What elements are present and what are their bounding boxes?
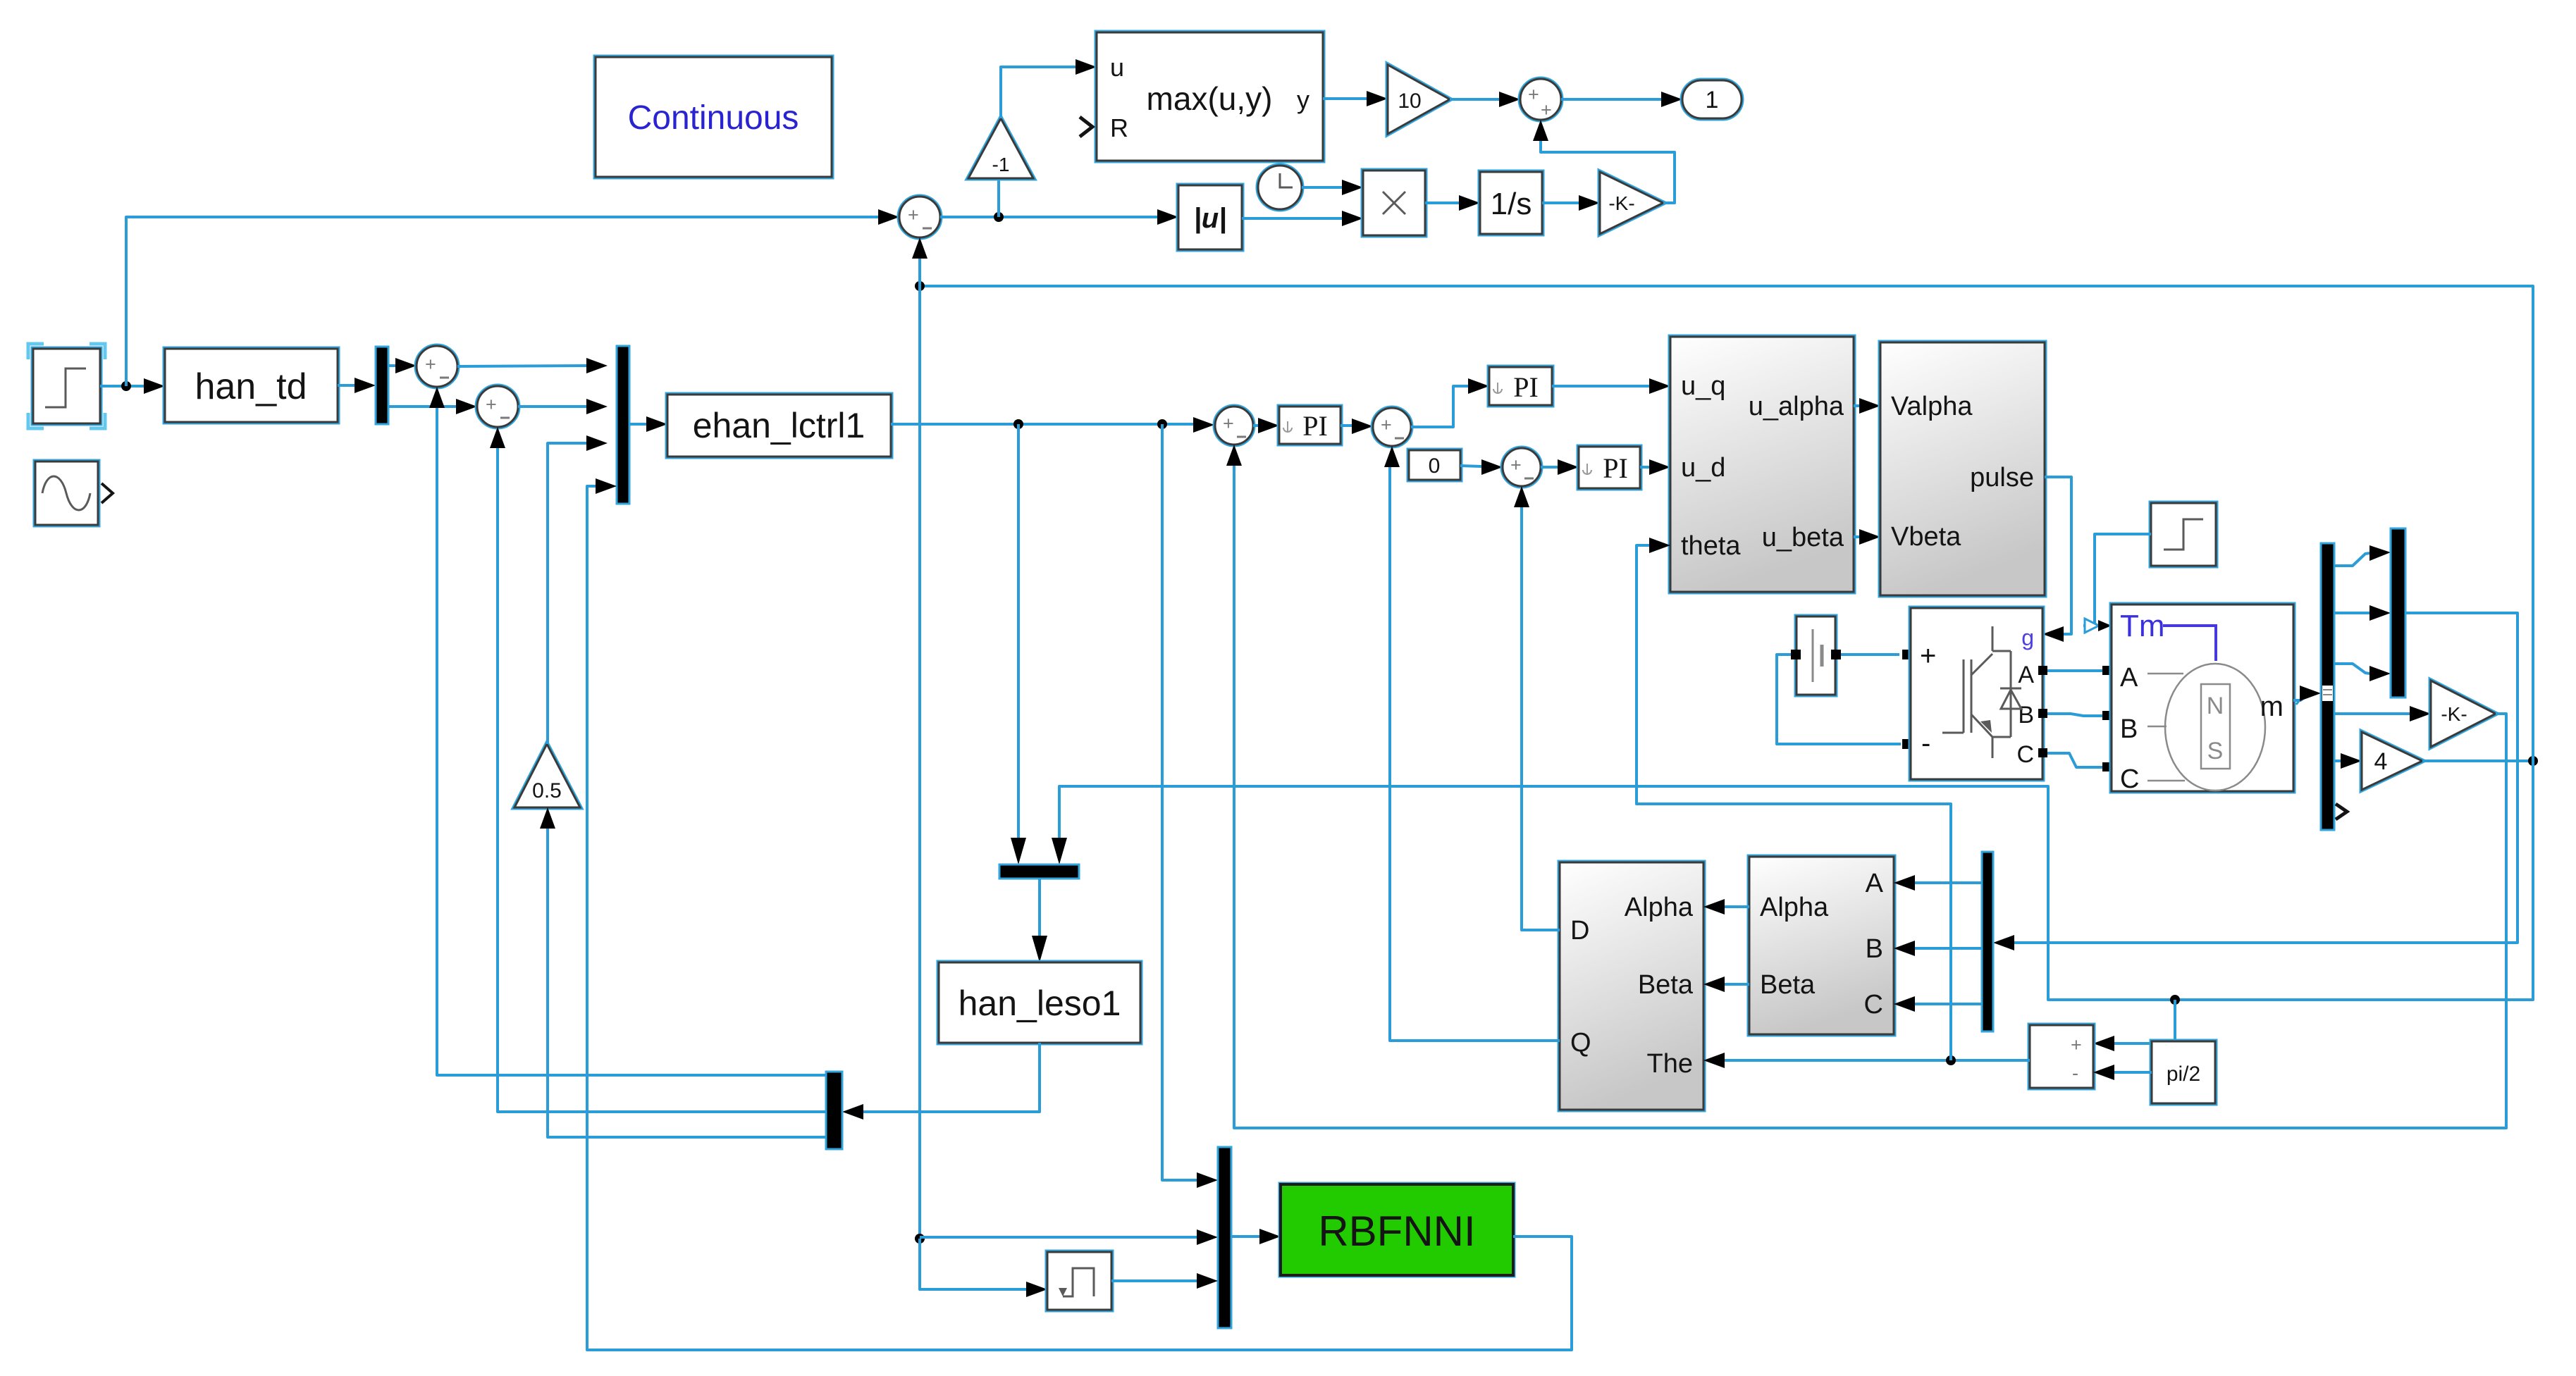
outport 1 — [1682, 80, 1742, 118]
wire PI -> q sum — [1341, 424, 1352, 427]
mux observer input — [999, 864, 1079, 879]
wire up into -1 gain — [997, 178, 1000, 217]
wire sum1 -> mux in1 — [457, 366, 586, 366]
svg-text:RBFNNI: RBFNNI — [1318, 1208, 1475, 1255]
svg-text:u: u — [1110, 53, 1124, 82]
svg-text:han_td: han_td — [195, 366, 307, 407]
svg-text:pulse: pulse — [1970, 463, 2034, 492]
svg-text:N: N — [2207, 693, 2224, 719]
wire demux out3 -> gain 0.5 — [548, 829, 826, 1137]
wire converter B -> motor B — [2042, 714, 2103, 716]
svg-text:A: A — [2018, 662, 2034, 688]
wire step -> han_td with branch up to top sum — [100, 385, 144, 388]
wire converter A -> motor A — [2042, 669, 2103, 672]
wire PI q -> u_q port — [1552, 385, 1649, 388]
block PI (speed) — [1279, 407, 1341, 444]
svg-text:+: + — [1541, 99, 1552, 120]
wire battery - -> converter - — [1777, 655, 1901, 744]
svg-text:theta: theta — [1681, 531, 1741, 561]
svg-text:Continuous: Continuous — [628, 99, 799, 137]
svg-text:PI: PI — [1302, 410, 1328, 442]
wire clock -> product — [1302, 186, 1342, 189]
svg-text:The: The — [1647, 1049, 1693, 1079]
svg-text:Beta: Beta — [1760, 970, 1816, 1000]
wire 0 -> d sum — [1460, 466, 1481, 466]
sum (v loop) — [417, 346, 457, 387]
svg-text:+: + — [2071, 1034, 2082, 1055]
wire product -> integrator — [1425, 202, 1459, 204]
sum (q current) — [1373, 408, 1411, 446]
wire demux out2 -> sum2 bottom — [498, 448, 826, 1112]
svg-text:Beta: Beta — [1638, 970, 1694, 1000]
svg-text:Valpha: Valpha — [1891, 392, 1973, 421]
wire bus out4 -> gain -K- — [2334, 712, 2410, 715]
svg-text:A: A — [1866, 869, 1884, 898]
svg-text:|u|: |u| — [1194, 203, 1227, 234]
wire step -> motor Tm — [2083, 534, 2151, 626]
svg-text:0.5: 0.5 — [532, 779, 562, 802]
svg-text:C: C — [2016, 741, 2034, 768]
unit delay — [1047, 1252, 1111, 1310]
svg-text:u_q: u_q — [1681, 371, 1725, 401]
chevron unconnected bus output — [2336, 804, 2347, 819]
wire sum -> PI speed — [1253, 424, 1258, 427]
wire bus out3 -> mux2 — [2334, 664, 2369, 674]
sum (output ++) — [1520, 79, 1561, 120]
block dq decouple (outputs D,Q) — [1560, 862, 1703, 1110]
svg-text:+: + — [908, 204, 919, 225]
node branch to observer input — [1013, 419, 1023, 429]
wire pulse -> converter g — [2045, 477, 2071, 634]
svg-text:-K-: -K- — [2441, 703, 2467, 725]
svg-text:S: S — [2207, 738, 2224, 764]
svg-text:C: C — [1864, 990, 1883, 1019]
wire pi/2 -> theta sum minus — [2114, 1071, 2152, 1074]
wire demux out1 -> sum — [388, 364, 395, 367]
svg-text:0: 0 — [1429, 454, 1441, 478]
svg-text:g: g — [2021, 625, 2034, 650]
wire demux -> B — [1915, 947, 1982, 950]
svg-text:1: 1 — [1706, 87, 1719, 113]
mux currents — [2391, 528, 2405, 698]
block max(u,y) — [1097, 32, 1323, 161]
svg-text:-: - — [1921, 728, 1930, 759]
svg-text:A: A — [2120, 663, 2138, 693]
svg-text:max(u,y): max(u,y) — [1147, 80, 1273, 117]
block DC source (battery) — [1797, 616, 1835, 695]
block |u| — [1178, 185, 1242, 249]
wire battery + -> converter + — [1835, 653, 1899, 656]
wire demux -> C — [1915, 1003, 1982, 1005]
wire |u| -> product — [1242, 217, 1342, 220]
wire converter C -> motor C — [2042, 753, 2103, 767]
wire bus out1 -> mux2 — [2334, 553, 2369, 566]
wire gain -K- -> torque sum bottom — [1234, 466, 2506, 1128]
svg-text:+: + — [486, 394, 497, 415]
sum (speed error, top) — [899, 197, 940, 237]
svg-text:-K-: -K- — [1608, 192, 1634, 214]
wire -1 -> max u input — [1001, 67, 1076, 118]
block SVPWM (Valpha/Vbeta -> pulse) — [1880, 342, 2045, 595]
demux phase currents — [1982, 852, 1993, 1031]
wire han_td -> demux — [338, 384, 355, 387]
wire Q -> q sum bottom — [1390, 467, 1560, 1041]
mux RBFNNI input — [1218, 1147, 1231, 1328]
wire u_alpha -> Valpha — [1854, 404, 1859, 407]
wire max -> gain 10 — [1323, 97, 1367, 100]
svg-text:R: R — [1110, 113, 1128, 142]
chevron unconnected R port — [1080, 117, 1092, 137]
sum (v1 loop) — [477, 386, 518, 427]
wire mux -> ehan_lctrl1 — [629, 423, 646, 426]
wire theta sum -> The port and theta trunk — [1725, 1059, 2030, 1062]
product x — [1363, 171, 1425, 235]
gain 4 — [2362, 732, 2422, 790]
wire D -> d sum bottom — [1522, 507, 1560, 930]
sum (torque loop) — [1215, 407, 1253, 445]
svg-text:-: - — [2072, 1062, 2078, 1084]
wire demux -> A — [1915, 881, 1982, 884]
gain -K- (top) — [1600, 172, 1663, 234]
block han_leso1 — [939, 962, 1140, 1043]
sum (d current) — [1503, 448, 1541, 486]
gain 0.5 — [514, 744, 580, 807]
wire gain0.5 -> mux in3 — [548, 443, 586, 744]
block constant pi/2 — [2152, 1041, 2215, 1103]
wire gain10 -> out sum — [1450, 98, 1499, 101]
wire RBFNNI -> mux in4 (compensation feedback) — [587, 486, 1572, 1350]
svg-text:pi/2: pi/2 — [2167, 1062, 2200, 1086]
svg-text:C: C — [2120, 764, 2139, 794]
svg-text:Alpha: Alpha — [1760, 893, 1829, 922]
block RBFNNI — [1281, 1184, 1513, 1275]
svg-text:B: B — [1866, 934, 1883, 964]
wire q sum -> PI q — [1411, 386, 1468, 427]
gain -1 — [968, 118, 1033, 178]
svg-text:+: + — [1223, 413, 1234, 434]
wire mux2 -> abc demux (current loop) — [2014, 613, 2518, 943]
gain -K- (speed feedback) — [2431, 681, 2496, 747]
wire integrator -> gain -K- — [1542, 202, 1579, 204]
svg-text:+: + — [425, 354, 436, 375]
svg-text:ehan_lctrl1: ehan_lctrl1 — [693, 406, 865, 445]
wire mux -> han_leso1 — [1038, 879, 1041, 936]
wire han_leso1 -> demux — [863, 1043, 1040, 1112]
sum theta (+ -) — [2030, 1025, 2093, 1088]
block PI (q axis) — [1489, 367, 1552, 405]
svg-text:m: m — [2260, 691, 2284, 722]
wire demux out1 -> sum1 bottom — [437, 408, 826, 1075]
wire unit delay -> mux in3 — [1111, 1279, 1197, 1282]
demux observer states — [826, 1072, 842, 1149]
wire mux -> RBFNNI — [1231, 1235, 1259, 1238]
wire d sum -> PI d — [1541, 466, 1558, 469]
svg-text:B: B — [2120, 714, 2138, 744]
wire -K- -> out sum bottom — [1541, 141, 1675, 203]
wire Beta -> dq block — [1725, 983, 1749, 986]
bus selector — [2321, 543, 2334, 830]
wire sum -> outport 1 — [1561, 98, 1661, 101]
svg-text:y: y — [1297, 85, 1309, 114]
wire top sum output -> |u| — [940, 216, 1157, 218]
node to -1 gain — [994, 212, 1004, 222]
wire u_beta -> Vbeta — [1854, 535, 1859, 538]
svg-text:+: + — [1510, 454, 1522, 476]
svg-text:PI: PI — [1513, 371, 1539, 403]
wire PI d -> u_d port — [1640, 466, 1649, 469]
block Step load torque — [2151, 503, 2216, 566]
svg-text:1/s: 1/s — [1491, 187, 1532, 221]
wire Alpha -> dq block — [1725, 905, 1749, 908]
gain 10 — [1388, 65, 1450, 134]
svg-text:D: D — [1570, 916, 1589, 946]
block ehan_lctrl1 — [667, 395, 891, 457]
block clarke (A,B,C -> Alpha,Beta) — [1749, 857, 1894, 1034]
svg-text:Alpha: Alpha — [1625, 893, 1694, 922]
svg-text:10: 10 — [1398, 89, 1421, 113]
wire ehan_lctrl1 output trunk — [891, 423, 1193, 426]
wire bus out2 -> mux2 — [2334, 612, 2369, 614]
svg-text:+: + — [1381, 414, 1392, 435]
wire demux out2 -> sum — [388, 405, 456, 408]
node branch to RBFNNI mux — [1157, 419, 1167, 429]
svg-text:u_d: u_d — [1681, 453, 1725, 483]
wire sum2 -> mux in2 — [518, 405, 586, 408]
svg-text:u_beta: u_beta — [1762, 523, 1844, 552]
block Step (speed reference) — [28, 344, 105, 428]
block PI (d axis) — [1579, 447, 1640, 488]
block PMSM motor — [2112, 605, 2293, 794]
svg-text:u_alpha: u_alpha — [1749, 392, 1844, 421]
constant 0 — [1409, 450, 1460, 480]
block universal bridge converter — [1911, 608, 2042, 779]
block Sine Wave (unused source) — [35, 461, 113, 525]
svg-text:-1: -1 — [992, 154, 1010, 175]
integrator 1/s — [1480, 172, 1542, 234]
svg-text:Tm: Tm — [2120, 609, 2165, 643]
demux after han_td — [376, 347, 388, 424]
svg-text:+: + — [1528, 84, 1539, 105]
block dq -> alpha/beta transform — [1670, 337, 1854, 592]
wire motor m -> bus selector — [2293, 694, 2309, 700]
svg-text:PI: PI — [1603, 452, 1628, 484]
wire bus out5 -> gain 4 — [2334, 760, 2341, 762]
block Continuous (powergui) — [596, 57, 832, 177]
svg-text:Vbeta: Vbeta — [1891, 522, 1961, 552]
wire gain 4 -> speed distribution net — [2422, 760, 2533, 762]
svg-text:han_leso1: han_leso1 — [959, 984, 1121, 1023]
svg-text:+: + — [1920, 640, 1936, 671]
clock — [1258, 166, 1302, 209]
mux 4-input — [617, 346, 629, 504]
block han_td — [165, 349, 338, 422]
svg-text:4: 4 — [2374, 748, 2388, 775]
svg-text:Q: Q — [1570, 1028, 1591, 1058]
